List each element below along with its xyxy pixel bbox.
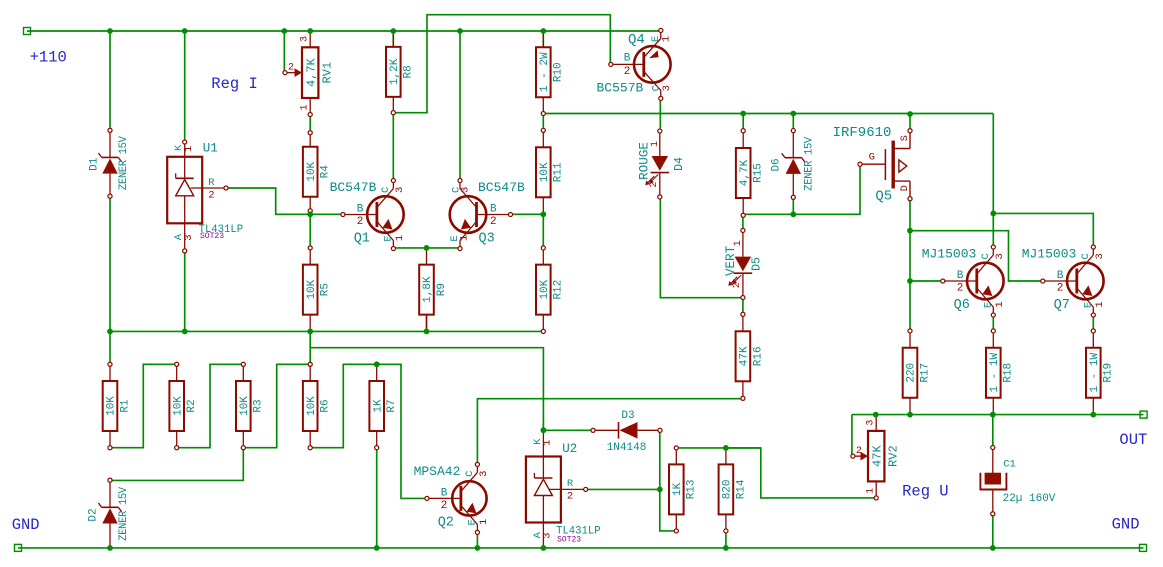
node GND left terminal — [15, 544, 22, 551]
svg-text:1 - 1W: 1 - 1W — [1089, 353, 1101, 393]
transistor Q1 (BC547B) — [367, 196, 404, 233]
svg-text:BC547B: BC547B — [478, 180, 525, 195]
svg-text:R16: R16 — [752, 346, 764, 366]
svg-text:1: 1 — [478, 519, 490, 525]
svg-text:1,2K: 1,2K — [389, 58, 401, 85]
svg-text:R5: R5 — [320, 283, 332, 296]
svg-text:10K: 10K — [172, 396, 184, 416]
svg-text:Reg I: Reg I — [211, 75, 258, 93]
svg-text:1: 1 — [542, 440, 554, 446]
svg-text:R1: R1 — [119, 399, 131, 413]
junction — [390, 28, 396, 34]
capacitor C1 (22µ 160V) — [991, 445, 995, 449]
junction — [107, 545, 113, 551]
svg-text:BC547B: BC547B — [330, 180, 377, 195]
svg-text:10K: 10K — [239, 396, 251, 416]
wire emitter row Q1-Q3 — [393, 247, 460, 249]
junction — [790, 211, 796, 217]
svg-text:R3: R3 — [253, 399, 265, 412]
wire +110 top rail — [27, 30, 660, 32]
svg-text:1: 1 — [183, 146, 195, 152]
resistor R8 (1,2K) — [391, 111, 395, 115]
svg-text:2: 2 — [732, 282, 743, 288]
svg-text:D3: D3 — [621, 410, 634, 422]
transistor Q4 (BC557B) — [634, 46, 671, 83]
svg-text:R8: R8 — [403, 65, 415, 78]
junction — [307, 211, 313, 217]
zener diode D6 (ZENER 15V) — [791, 129, 795, 133]
wire collector feed Q6 — [992, 114, 994, 247]
svg-text:R: R — [208, 177, 215, 189]
resistor R16 (47K) — [741, 312, 745, 316]
svg-text:R19: R19 — [1103, 363, 1115, 383]
wire OUT to RV2 wiper — [852, 415, 853, 456]
wire R15 to D5 — [742, 218, 744, 229]
junction — [307, 28, 313, 34]
svg-text:R: R — [567, 478, 574, 490]
svg-text:3: 3 — [866, 420, 877, 426]
resistor R4 (10K) — [308, 131, 312, 135]
LED D4 (ROUGE) — [658, 129, 662, 133]
svg-text:D: D — [899, 185, 911, 191]
junction — [424, 329, 430, 335]
wire Q4 collector to D4 — [659, 101, 661, 129]
svg-text:2: 2 — [1057, 283, 1064, 295]
svg-text:R4: R4 — [320, 165, 332, 179]
junction — [990, 211, 996, 217]
svg-text:S: S — [899, 135, 911, 141]
svg-text:Q1: Q1 — [354, 232, 370, 247]
svg-text:D5: D5 — [751, 257, 764, 271]
svg-text:3: 3 — [459, 187, 471, 193]
zener diode D2 (ZENER 15V) — [108, 478, 112, 482]
wire U1 anode to mid rail — [184, 253, 186, 331]
junction — [374, 361, 380, 367]
svg-text:C: C — [380, 187, 392, 193]
svg-text:U1: U1 — [203, 142, 218, 156]
junction — [424, 245, 430, 251]
wire chain R2-R3 — [179, 364, 241, 447]
wire U1 ref to Q1 base — [228, 188, 340, 214]
svg-text:SOT23: SOT23 — [557, 536, 581, 545]
svg-text:R9: R9 — [436, 283, 448, 296]
IC U2 (TL431LP) — [526, 457, 561, 523]
svg-text:3: 3 — [478, 471, 490, 477]
resistor R5 (10K) — [308, 246, 312, 250]
junction — [990, 412, 996, 418]
svg-text:1 - 1W: 1 - 1W — [989, 353, 1001, 393]
wire GND rail — [18, 547, 1144, 549]
svg-text:+110: +110 — [30, 48, 67, 66]
svg-text:1: 1 — [650, 141, 661, 147]
svg-text:SOT23: SOT23 — [200, 232, 224, 241]
svg-text:2: 2 — [567, 491, 573, 503]
wire chain R1-R2 — [112, 364, 174, 447]
MOSFET Q5 (IRF9610) — [858, 162, 862, 166]
svg-text:1: 1 — [300, 104, 311, 110]
wire R6 node to U2 cathode column — [310, 348, 543, 428]
svg-text:1: 1 — [733, 240, 744, 246]
wire D3 to R13 bottom — [660, 433, 674, 531]
wire C1 bottom — [992, 516, 994, 548]
svg-text:R14: R14 — [735, 479, 747, 499]
wire RV1 wiper to rail — [283, 31, 285, 73]
wire bus R8 to Q4 base — [393, 15, 611, 113]
junction — [907, 111, 913, 117]
junction — [723, 545, 729, 551]
svg-text:MJ15003: MJ15003 — [1022, 247, 1077, 262]
svg-text:R7: R7 — [386, 399, 398, 412]
svg-text:3: 3 — [183, 234, 195, 240]
svg-text:ZENER 15V: ZENER 15V — [118, 135, 130, 190]
resistor R11 (10K) — [541, 128, 545, 132]
wire Q3 base to node — [513, 213, 544, 215]
wire R9 bottom — [426, 315, 428, 332]
resistor R7 (1K) — [375, 362, 379, 366]
resistor R10 (1 - 2W) — [541, 111, 545, 115]
junction — [541, 427, 547, 433]
svg-text:3: 3 — [661, 85, 673, 91]
svg-text:D1: D1 — [89, 157, 101, 171]
svg-text:RV1: RV1 — [321, 62, 335, 84]
svg-text:1: 1 — [1094, 301, 1106, 307]
node OUT terminal — [1140, 411, 1147, 418]
svg-text:2: 2 — [288, 63, 294, 74]
svg-text:E: E — [1082, 302, 1094, 308]
junction — [907, 228, 913, 234]
svg-text:Q5: Q5 — [875, 188, 892, 204]
svg-text:1,8K: 1,8K — [422, 276, 434, 303]
wire Q5 drain column — [909, 201, 911, 329]
wire R7 bottom to GND — [376, 449, 378, 548]
svg-text:C1: C1 — [1003, 458, 1016, 470]
svg-text:D2: D2 — [88, 508, 100, 521]
junction — [182, 329, 188, 335]
svg-text:Q4: Q4 — [628, 32, 645, 48]
junction — [107, 329, 113, 335]
svg-text:R11: R11 — [553, 162, 565, 182]
svg-text:2: 2 — [441, 500, 448, 512]
wire RV1 to R4 — [309, 115, 311, 131]
svg-text:1N4148: 1N4148 — [607, 442, 647, 454]
svg-text:E: E — [382, 235, 394, 241]
junction — [1090, 412, 1096, 418]
svg-text:R2: R2 — [186, 399, 198, 412]
svg-text:C: C — [1080, 253, 1092, 259]
wire Q2 emitter to GND — [476, 535, 478, 548]
junction — [307, 329, 313, 335]
transistor Q2 (MPSA42) — [452, 481, 486, 515]
svg-text:1: 1 — [994, 301, 1006, 307]
wire D5 to R16 — [742, 300, 744, 312]
svg-text:2: 2 — [649, 182, 660, 188]
wire chain R3-R6 — [246, 364, 309, 447]
svg-text:820: 820 — [722, 479, 734, 499]
wire D4 to D5 — [660, 199, 740, 298]
svg-text:GND: GND — [1112, 516, 1140, 534]
wire Q2 collector to R16 — [477, 399, 740, 463]
svg-text:1K: 1K — [672, 482, 684, 496]
svg-text:2: 2 — [357, 216, 364, 228]
resistor R15 (4,7K) — [741, 129, 745, 133]
wire C1 top — [992, 415, 994, 446]
svg-text:Q3: Q3 — [479, 232, 495, 247]
svg-text:C: C — [464, 471, 476, 477]
svg-text:2: 2 — [208, 189, 214, 201]
svg-text:Reg U: Reg U — [902, 483, 949, 501]
wire R7 top to Q2 base — [379, 364, 425, 498]
svg-text:4,7K: 4,7K — [739, 159, 751, 186]
wire Q7 emitter to R19 — [1092, 315, 1094, 329]
svg-text:B: B — [1057, 270, 1064, 282]
wire R8 top — [392, 31, 394, 47]
junction — [540, 28, 546, 34]
svg-text:G: G — [869, 152, 875, 164]
junction — [790, 111, 796, 117]
junction — [907, 412, 913, 418]
junction — [907, 278, 913, 284]
svg-text:Q2: Q2 — [438, 515, 454, 530]
wire R8 bottom to Q1 collector — [392, 115, 394, 178]
wire base node to R5 — [309, 214, 311, 245]
wire drain branch to Q7 base — [910, 231, 1041, 281]
svg-text:4,7K: 4,7K — [305, 57, 319, 87]
svg-text:1: 1 — [661, 36, 673, 42]
wire R4 to base node — [309, 213, 311, 215]
svg-text:C: C — [980, 253, 992, 259]
svg-text:RV2: RV2 — [887, 445, 901, 467]
svg-text:2: 2 — [490, 216, 497, 228]
resistor R9 (1,8K) — [426, 248, 428, 265]
wire R10 bottom row — [543, 113, 993, 115]
resistor R3 (10K) — [241, 362, 245, 366]
junction — [182, 28, 188, 34]
transistor Q7 (MJ15003) — [1067, 263, 1104, 300]
wire Q3 collector to rail — [459, 31, 461, 178]
wire U2 cathode to D3 — [543, 429, 591, 431]
svg-text:10K: 10K — [306, 279, 318, 299]
junction — [475, 545, 481, 551]
junction — [540, 211, 546, 217]
svg-text:E: E — [982, 302, 994, 308]
svg-text:1K: 1K — [372, 399, 384, 413]
svg-text:MPSA42: MPSA42 — [414, 464, 461, 479]
svg-text:IRF9610: IRF9610 — [833, 125, 892, 141]
svg-text:3: 3 — [1094, 253, 1106, 259]
svg-text:1 - 2W: 1 - 2W — [539, 52, 551, 92]
svg-text:R15: R15 — [753, 163, 765, 183]
svg-text:10K: 10K — [306, 161, 318, 181]
wire R10 to R11 — [542, 116, 544, 128]
svg-text:10K: 10K — [539, 279, 551, 299]
svg-text:3: 3 — [994, 253, 1006, 259]
wire U1 cathode — [184, 31, 186, 140]
svg-text:47K: 47K — [871, 445, 885, 467]
wire D1 bottom to mid rail — [109, 198, 111, 331]
svg-text:1: 1 — [458, 235, 470, 241]
svg-text:2: 2 — [856, 446, 862, 457]
resistor R1 (10K) — [108, 362, 112, 366]
svg-text:R17: R17 — [919, 363, 931, 383]
svg-text:Q7: Q7 — [1054, 298, 1070, 313]
svg-text:B: B — [441, 487, 448, 499]
junction — [107, 28, 113, 34]
wire D6 top — [792, 114, 794, 129]
zener diode D1 (ZENER 15V) — [108, 128, 112, 132]
svg-text:B: B — [490, 204, 497, 216]
IC U1 (TL431LP) — [167, 157, 202, 224]
wire R14 bottom to GND — [725, 533, 727, 548]
wire R10 top — [542, 31, 544, 47]
wire mid rail to R6 — [309, 331, 311, 362]
potentiometer RV2 (47K) — [875, 415, 877, 431]
svg-text:MJ15003: MJ15003 — [922, 247, 977, 262]
wire Q5 source — [909, 114, 911, 129]
wire collector feed Q7 — [993, 213, 1093, 246]
wire U2 ref row — [588, 488, 660, 490]
wire R15/D6 row to Q5 gate — [743, 166, 860, 214]
junction — [723, 445, 729, 451]
svg-text:GND: GND — [12, 516, 40, 534]
resistor R19 (1 - 1W) — [1091, 329, 1095, 333]
svg-text:2: 2 — [624, 66, 631, 78]
svg-text:R12: R12 — [553, 280, 565, 300]
wire R1 top — [109, 331, 111, 362]
svg-text:U2: U2 — [562, 442, 577, 456]
svg-text:220: 220 — [906, 363, 918, 383]
svg-text:OUT: OUT — [1119, 431, 1147, 449]
node +110 terminal — [24, 28, 31, 35]
resistor R14 (820) — [724, 529, 728, 533]
svg-text:1: 1 — [866, 488, 877, 494]
wire R3 bottom to D2 — [112, 450, 243, 481]
wire OUT rail — [852, 414, 1144, 416]
svg-text:Q6: Q6 — [954, 298, 970, 313]
svg-text:R18: R18 — [1003, 363, 1015, 383]
transistor Q6 (MJ15003) — [967, 263, 1004, 300]
LED D5 (VERT) — [741, 228, 745, 232]
wire chain R6-R7 — [312, 364, 374, 447]
resistor R13 (1K) — [674, 446, 678, 450]
svg-text:VERT: VERT — [724, 245, 738, 276]
svg-text:3: 3 — [542, 533, 554, 539]
junction — [374, 545, 380, 551]
svg-text:D4: D4 — [673, 157, 686, 171]
svg-text:R13: R13 — [686, 479, 698, 499]
node GND right terminal — [1140, 544, 1147, 551]
wire RV2 bottom to divider — [678, 448, 874, 498]
diode D3 (1N4148) — [591, 428, 595, 432]
junction — [457, 28, 463, 34]
svg-text:1: 1 — [394, 235, 406, 241]
svg-text:10K: 10K — [539, 162, 551, 182]
svg-text:3: 3 — [394, 187, 406, 193]
svg-text:E: E — [466, 519, 478, 525]
svg-text:B: B — [624, 53, 631, 65]
resistor R12 (10K) — [541, 246, 545, 250]
wire R14 node row — [726, 447, 761, 449]
transistor Q3 (BC547B) — [450, 196, 487, 233]
resistor R6 (10K) — [308, 362, 312, 366]
svg-text:ZENER 15V: ZENER 15V — [118, 486, 130, 541]
svg-text:R10: R10 — [553, 62, 565, 82]
junction — [541, 545, 547, 551]
svg-text:10K: 10K — [106, 396, 118, 416]
svg-text:22µ 160V: 22µ 160V — [1003, 493, 1056, 505]
potentiometer RV1 (4,7K) — [309, 31, 311, 47]
resistor R18 (1 - 1W) — [991, 329, 995, 333]
svg-text:3: 3 — [300, 36, 311, 42]
svg-text:2: 2 — [957, 283, 964, 295]
svg-text:D6: D6 — [770, 158, 782, 171]
svg-text:B: B — [357, 204, 364, 216]
resistor R2 (10K) — [175, 362, 179, 366]
wire R15 top — [742, 114, 744, 129]
wire node to R12 — [542, 214, 544, 245]
junction — [281, 28, 287, 34]
wire drain to Q6 base — [910, 280, 941, 282]
wire D6 bottom — [792, 200, 794, 215]
junction — [990, 545, 996, 551]
junction — [657, 487, 663, 493]
svg-text:R6: R6 — [320, 399, 332, 412]
svg-text:B: B — [957, 270, 964, 282]
svg-text:47K: 47K — [739, 346, 751, 366]
wire mid rail — [110, 330, 541, 332]
wire D1 top — [109, 31, 111, 128]
junction — [873, 412, 879, 418]
resistor R17 (220) — [908, 329, 912, 333]
svg-text:10K: 10K — [306, 396, 318, 416]
junction — [740, 111, 746, 117]
wire Q6 emitter to R18 — [992, 315, 994, 329]
svg-text:BC557B: BC557B — [596, 80, 643, 95]
svg-text:ZENER 15V: ZENER 15V — [803, 136, 815, 191]
